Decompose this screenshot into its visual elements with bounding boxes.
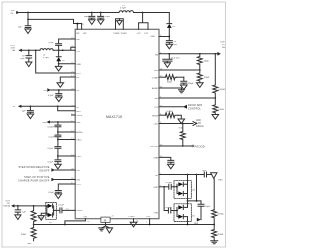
node 5V output label: [220, 41, 225, 49]
capacitor C17 1uF: [15, 206, 26, 215]
wire DRC chain vertical: [213, 179, 215, 210]
svg-text:DRP: DRP: [154, 187, 159, 189]
wire VL pin row: [21, 105, 75, 107]
wire D4 cathode link up to DR: [187, 175, 189, 194]
wire LX2 pins bracket: [139, 13, 148, 30]
capacitor C5 22uF: [20, 50, 32, 62]
wire PGOOD row: [159, 145, 192, 147]
svg-text:22µF: 22µF: [20, 58, 26, 60]
svg-text:CSP: CSP: [146, 216, 151, 218]
diode D4b: [177, 187, 188, 196]
svg-text:GN: GN: [155, 54, 159, 56]
ground at C1: [25, 29, 31, 34]
node junction D3 cathodes: [53, 210, 55, 212]
U1 bottom-edge pin labels ON JP PGND CSP: [84, 216, 151, 218]
wire D3 anode link: [46, 206, 48, 215]
wire right pin row1 to D1 node: [159, 36, 169, 38]
capacitor C25 series 0.22uF: [165, 207, 174, 213]
svg-text:LDO: LDO: [154, 124, 159, 126]
node junction C9: [30, 105, 32, 107]
ground at DR end: [211, 173, 217, 179]
ground at R8: [178, 119, 185, 124]
node junction C2: [91, 12, 93, 14]
LN2 input arrow: [51, 178, 55, 181]
node junction R1: [33, 205, 35, 207]
svg-text:10µF: 10µF: [84, 16, 90, 18]
LDO output arrow: [193, 122, 197, 126]
VL output arrow: [18, 105, 22, 108]
L1 value label: [120, 5, 126, 10]
node junction REF cap: [57, 121, 59, 123]
wire DRP row: [159, 186, 169, 188]
node junction FB2 tap: [199, 69, 201, 71]
wire ON pin branch: [65, 219, 86, 225]
node junction LX/pins: [62, 49, 64, 51]
node PGOOD label with circle: [192, 144, 205, 148]
capacitor C16 0.1uF: [48, 191, 61, 194]
wire TH row: [159, 97, 215, 99]
capacitor C3 10uF: [98, 13, 111, 20]
ground at C5: [26, 62, 32, 67]
svg-text:DRVN: DRVN: [76, 210, 82, 212]
svg-text:VIN: VIN: [11, 10, 15, 12]
node junction C14 C15: [168, 53, 170, 55]
svg-text:4.7µH: 4.7µH: [43, 57, 49, 59]
svg-text:DRC: DRC: [218, 180, 223, 182]
wire AGND pin row: [58, 131, 75, 133]
wire REF pin row: [50, 121, 75, 123]
wire D5b cathode down to feedback rail: [187, 217, 189, 225]
inductor L1: [119, 11, 134, 13]
CTL input arrow: [183, 105, 187, 109]
svg-text:220pF: 220pF: [188, 83, 195, 85]
ground earth at R11: [211, 241, 218, 244]
dual diode D5 dashed package: [174, 204, 196, 222]
svg-text:PGOOD: PGOOD: [150, 146, 158, 148]
diode D3a: [47, 204, 53, 208]
wire VR pin row: [51, 89, 75, 91]
svg-text:AGND: AGND: [76, 131, 83, 134]
node junction DR box1: [187, 174, 189, 176]
op-amp U1 MAX1715 controller IC body: [75, 29, 159, 218]
wire OUT3 pin to cap: [58, 184, 75, 190]
ground at C2: [89, 20, 95, 25]
svg-text:3.3kΩ: 3.3kΩ: [204, 76, 210, 79]
wire OUT sense to OUT pin: [36, 50, 75, 73]
diode D4a: [174, 182, 188, 187]
svg-text:ONB: ONB: [153, 158, 158, 160]
wire DR branch down to pump node: [196, 175, 198, 201]
svg-text:REF: REF: [43, 122, 48, 124]
capacitor C18 series 0.1uF: [54, 205, 76, 213]
resistor R1 100k: [31, 206, 44, 225]
wire DR2 branch vertical: [164, 187, 168, 211]
wire feedback rail bottom: [34, 224, 215, 226]
svg-text:THE: THE: [154, 98, 159, 100]
node junction CELL1: [57, 155, 59, 157]
svg-text:100mA: 100mA: [3, 205, 10, 208]
resistor R8 1M horizontal: [165, 110, 178, 118]
node junction pullup top: [182, 123, 184, 125]
svg-text:CEL2: CEL2: [76, 140, 82, 142]
wire PGND pins bracket: [116, 19, 124, 30]
svg-text:JP: JP: [103, 219, 106, 223]
capacitor C12 0.1uF: [48, 140, 61, 157]
svg-text:CONTROL: CONTROL: [188, 107, 202, 110]
node junction ON branch: [64, 224, 66, 226]
wire GND pin row: [59, 63, 76, 65]
wire COMP to C19: [177, 76, 184, 78]
svg-text:100mA: 100mA: [196, 125, 204, 128]
node junction FBO branch: [57, 105, 59, 107]
svg-text:REF: REF: [76, 122, 81, 124]
svg-text:10kΩ: 10kΩ: [167, 81, 172, 84]
svg-text:0.1µF: 0.1µF: [59, 205, 65, 207]
wire FB2 row: [159, 69, 200, 71]
diode D1 rectifier: [167, 13, 176, 37]
ground at C14: [164, 63, 170, 68]
svg-text:DR: DR: [155, 175, 159, 177]
wire SHDN row: [159, 114, 165, 116]
svg-text:0.1µF: 0.1µF: [49, 137, 55, 139]
node junction OUT sense: [35, 49, 37, 51]
capacitor C7 BST 0.1uF: [48, 39, 75, 50]
svg-text:SHDN: SHDN: [152, 115, 158, 117]
node junction CELL2: [57, 139, 59, 141]
wire CTL row: [159, 106, 183, 108]
svg-text:0.22µF: 0.22µF: [165, 182, 172, 184]
ground PGND arrow: [117, 19, 123, 25]
svg-text:0.22µF: 0.22µF: [47, 127, 54, 129]
capacitor C2 10uF: [84, 13, 95, 20]
resistor R5 53.6k: [213, 54, 226, 98]
wire VIN rail top: [20, 12, 119, 14]
VIN input arrow: [16, 11, 19, 14]
wire D3 cathode link: [53, 206, 55, 215]
ground at C13: [55, 164, 62, 169]
svg-text:PGND: PGND: [121, 33, 128, 35]
wire LX1 node: [53, 47, 75, 50]
svg-text:AGND: AGND: [152, 87, 159, 90]
node junction D2/GND pin: [58, 63, 60, 65]
wire JP ground branches: [102, 226, 110, 228]
resistor R3 56k: [197, 54, 209, 70]
wire COMP row: [159, 76, 166, 78]
svg-text:2.0kΩ: 2.0kΩ: [218, 108, 224, 111]
ground at PGND bottom: [130, 222, 137, 227]
wire R8 to ground: [178, 115, 181, 119]
capacitor C19 220pF: [181, 77, 195, 85]
inductor L2: [40, 49, 53, 60]
node junction divider2 top: [214, 53, 216, 55]
node junction C8: [58, 89, 60, 91]
node junction R1/R2 feedback rail: [33, 224, 35, 226]
node junction D4 input: [176, 186, 178, 188]
ground at C16: [55, 194, 62, 199]
wire 5V output row: [159, 53, 217, 55]
ground at D3b: [38, 216, 44, 221]
-5V output arrow: [11, 204, 14, 207]
wire D5a cathode up to pump node: [187, 201, 189, 208]
node junction TH tap: [214, 97, 216, 99]
svg-text:1MΩ: 1MΩ: [167, 110, 172, 113]
node junction C3: [100, 12, 102, 14]
page border frame: [2, 2, 226, 247]
dual diode D3 dashed package: [46, 202, 57, 224]
svg-text:56kΩ: 56kΩ: [204, 59, 209, 62]
svg-text:53.6kΩ: 53.6kΩ: [218, 88, 225, 91]
wire -5V rail: [14, 205, 46, 207]
wire D3b anode to ground: [41, 213, 47, 215]
ground at C3: [98, 20, 104, 25]
wire CELL1 pin row: [58, 155, 75, 157]
wire AGND row: [159, 88, 182, 90]
node junction D1/C4: [168, 36, 170, 38]
capacitor C9 1uF: [22, 106, 34, 114]
svg-text:GND: GND: [76, 64, 81, 66]
node junction rail/R10: [213, 224, 215, 226]
U1 left-edge pin labels: [76, 39, 83, 212]
ground at R4: [197, 83, 204, 88]
svg-text:4.7µH: 4.7µH: [120, 8, 126, 10]
resistor R9 3.3k pullup: [179, 124, 186, 147]
ground at D2: [55, 64, 62, 71]
5V output arrow: [217, 52, 221, 56]
node junction divider R3 top: [199, 53, 201, 55]
ground at FN: [57, 83, 64, 88]
svg-text:FBO: FBO: [76, 111, 81, 113]
wire CELL2 pin row: [58, 139, 75, 141]
diode D2 catch: [56, 50, 65, 64]
wire LDO row: [159, 123, 193, 125]
svg-text:20kΩ: 20kΩ: [21, 233, 26, 236]
node OUT1 output label: [10, 45, 15, 52]
wire CSP stub to feedback rail: [149, 219, 151, 225]
svg-text:0.1µF: 0.1µF: [48, 192, 54, 194]
diode D5b: [177, 211, 188, 219]
node junction LX/BST: [58, 49, 60, 51]
capacitor C14 C15: [163, 54, 181, 63]
diode D3b: [47, 213, 53, 217]
svg-text:CSN: CSN: [154, 212, 159, 214]
ground at C20: [168, 164, 175, 169]
resistor R10 167k: [212, 210, 224, 225]
svg-text:REF: REF: [27, 243, 32, 245]
resistor R11 113k: [212, 225, 224, 241]
wire FBO pin jog: [58, 106, 75, 111]
resistor R7 10k horizontal: [166, 75, 177, 84]
svg-text:MAX1715: MAX1715: [106, 115, 122, 119]
node junction IN pin stub: [76, 23, 78, 25]
svg-text:113kΩ: 113kΩ: [217, 233, 223, 236]
svg-text:0.1µF: 0.1µF: [48, 42, 54, 44]
node LDO output label: [196, 119, 204, 128]
LN1 input arrow: [51, 168, 55, 171]
node junction VIN/rail2: [27, 12, 29, 14]
capacitor C23 1.0uF: [198, 201, 211, 220]
svg-text:ON: ON: [84, 216, 88, 218]
svg-text:PGND: PGND: [129, 216, 136, 218]
jumper JP box: [101, 217, 110, 226]
node junction DR cap branch: [196, 174, 198, 176]
ground at R6: [212, 115, 219, 120]
dual diode D4 dashed package: [174, 181, 196, 199]
U1 pin numbers: [66, 24, 163, 224]
ground at C8: [56, 97, 63, 102]
svg-text:VROK: VROK: [76, 115, 83, 117]
node junction DRP split: [163, 186, 165, 188]
capacitor C20: [168, 160, 174, 164]
node -5V output label: [3, 200, 10, 207]
capacitor C11 0.1uF: [49, 132, 61, 140]
svg-text:COMP: COMP: [152, 77, 159, 79]
wire PGND bottom stub: [133, 219, 135, 223]
wire LN1 stub: [55, 169, 75, 171]
ground at C19: [181, 85, 188, 90]
svg-text:CHARGE PUMP ON/OFF: CHARGE PUMP ON/OFF: [18, 179, 50, 182]
node junction LX2: [142, 12, 144, 14]
wire vertical x30 between rails: [27, 13, 29, 20]
wire OUT1 rail: [22, 49, 40, 51]
OUT1 output arrow: [18, 49, 22, 52]
node LN1 control label: [18, 166, 49, 172]
diode D5a: [174, 205, 188, 210]
node junction C17: [17, 205, 19, 207]
node junction CSP rail: [149, 224, 151, 226]
5VL input arrow: [47, 88, 51, 91]
svg-text:REF: REF: [194, 223, 199, 225]
capacitor C1 1uF at VIN: [18, 19, 31, 29]
ground earth at JP left: [99, 228, 105, 231]
svg-text:10µF: 10µF: [105, 16, 111, 18]
resistor R2 20k: [21, 225, 36, 241]
resistor R6 2.0k: [213, 98, 224, 115]
wire rail2 to IC IN pins: [28, 19, 82, 29]
svg-text:0.1µF: 0.1µF: [48, 95, 54, 97]
svg-text:OUT: OUT: [220, 41, 225, 43]
node FROM SDN CONTROL label: [188, 104, 202, 110]
svg-text:OUT: OUT: [76, 73, 81, 75]
svg-text:ON/OFF: ON/OFF: [39, 169, 50, 172]
node VIN input label: [11, 10, 15, 15]
wire FN pin to ground: [60, 77, 75, 83]
node junction AGND: [57, 131, 59, 133]
svg-text:0.1µF: 0.1µF: [48, 148, 54, 150]
U1 top-edge pin labels IN2 IN2 PGND PGND LX2 LX2: [76, 33, 155, 38]
wire DR row: [159, 174, 204, 176]
wire VROK stub: [72, 114, 76, 116]
ground at JP right: [106, 228, 112, 233]
wire D4b cathode down to pump node: [188, 194, 202, 201]
node junction C5: [28, 49, 30, 51]
svg-text:0.22µF: 0.22µF: [165, 207, 172, 209]
capacitor C8 0.1uF: [48, 90, 62, 97]
svg-text:0.1µF: 0.1µF: [48, 161, 54, 163]
svg-text:167kΩ: 167kΩ: [217, 213, 224, 216]
node junction pump node right: [196, 200, 198, 202]
svg-text:FN: FN: [76, 77, 79, 79]
ground at C4: [166, 44, 173, 49]
REF output arrow: [47, 120, 51, 123]
svg-text:1.0µF: 1.0µF: [205, 206, 211, 208]
ground earth at AGND: [179, 90, 185, 93]
REF net arrow at C23: [194, 218, 201, 225]
svg-text:C14, C15: C14, C15: [171, 58, 181, 60]
svg-text:PGOOD: PGOOD: [194, 144, 204, 148]
capacitor C10 0.22uF: [47, 122, 60, 132]
svg-text:CEL1: CEL1: [76, 156, 82, 158]
svg-text:PGND: PGND: [114, 33, 121, 35]
wire VIN rail after inductor L1: [134, 12, 170, 14]
svg-text:VR: VR: [76, 90, 79, 92]
resistor R4 3.3k: [197, 70, 209, 83]
capacitor C4 1uF: [166, 37, 177, 47]
node junction rail2: [27, 19, 29, 21]
node LN2 control label: [18, 176, 50, 182]
U1 right-edge pin labels: [150, 54, 159, 214]
wire ONB row: [159, 157, 171, 160]
node junction D5 input: [176, 210, 178, 212]
svg-text:OUT: OUT: [76, 184, 81, 186]
node junction pullup bottom: [182, 145, 184, 147]
wire LN2 stub: [55, 179, 75, 181]
ground at C17: [15, 215, 21, 220]
capacitor C22 series 0.22uF: [165, 182, 174, 189]
capacitor C13 0.1uF: [48, 156, 61, 164]
node junction pump node left: [187, 200, 189, 202]
node junction D5b rail: [187, 224, 189, 226]
ground at C9: [27, 114, 34, 119]
capacitor C21 series: [204, 172, 211, 177]
